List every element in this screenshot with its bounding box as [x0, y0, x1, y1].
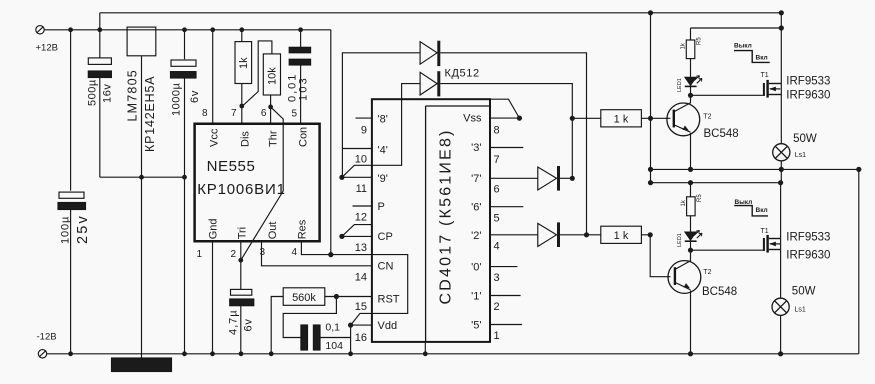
wire R7 to LED ch2: [690, 216, 692, 232]
resistor R3 560k: [283, 288, 325, 306]
wire gate ch1: [691, 94, 763, 96]
svg-text:4: 4: [291, 247, 297, 258]
svg-text:14: 14: [355, 272, 367, 284]
lamp Ls2 ch2: [772, 298, 789, 315]
wire Vdd node column: [350, 325, 352, 354]
node gate ch1: [688, 93, 693, 98]
node gnd link: [139, 175, 144, 180]
svg-text:T1: T1: [761, 72, 769, 79]
node rail 555 Vcc: [210, 27, 215, 32]
svg-text:LM7805: LM7805: [126, 69, 140, 121]
svg-text:IRF9630: IRF9630: [786, 90, 830, 102]
svg-text:Ls1: Ls1: [795, 152, 806, 159]
wire R5 to LED ch1: [690, 59, 692, 78]
wire top bus riser: [99, 13, 101, 30]
node rail 560k: [269, 351, 274, 356]
wire 1k ch1 to base: [641, 117, 670, 119]
node diode ch1 top: [570, 116, 575, 121]
svg-text:LED1: LED1: [677, 233, 683, 247]
mosfet T3 ch2 arrow: [770, 243, 780, 245]
wire pin12 stub: [353, 205, 372, 207]
svg-text:4: 4: [494, 241, 500, 253]
LED ch1 arrows: [694, 76, 702, 84]
svg-text:'5': '5': [471, 320, 481, 332]
wire pin9 stub: [356, 117, 372, 119]
svg-text:100µ: 100µ: [60, 216, 72, 244]
svg-text:Выкл: Выкл: [735, 199, 753, 206]
transistor Q1 base bar: [673, 110, 675, 128]
resistor R4 1k ch1: [601, 110, 642, 127]
svg-text:LED1: LED1: [677, 78, 683, 92]
wire diode2 cathode to ch1 feed: [440, 84, 572, 179]
node emitter ch1: [688, 167, 693, 172]
mosfet T3 ch2 channel bar: [766, 235, 768, 253]
diode VD2 KD512 bottom: [420, 72, 437, 95]
svg-text:103: 103: [298, 76, 310, 101]
node Vss: [517, 116, 522, 121]
terminal X2 -12V: [38, 350, 46, 358]
node feed ch2 right: [778, 180, 783, 185]
svg-text:CD4017 (К561ИЕ8): CD4017 (К561ИЕ8): [438, 128, 455, 304]
transistor Q2 emitter arrow: [684, 283, 690, 288]
capacitor C5 4.7u 6v: [231, 289, 252, 295]
svg-text:6: 6: [494, 184, 500, 196]
svg-text:IRF9630: IRF9630: [786, 250, 830, 262]
wire pin5 stub: [490, 206, 524, 208]
node rail C4: [298, 27, 303, 32]
svg-text:'7': '7': [471, 173, 481, 185]
wire diode3 out: [560, 177, 573, 179]
svg-text:3: 3: [494, 272, 500, 284]
svg-text:16: 16: [355, 332, 367, 344]
resistor R7 ch2 led resistor: [687, 197, 696, 216]
svg-text:'1': '1': [471, 291, 481, 303]
svg-text:2: 2: [230, 249, 236, 260]
svg-text:T2: T2: [703, 269, 711, 276]
node R5 top: [779, 25, 784, 30]
svg-text:560k: 560k: [292, 292, 316, 304]
svg-text:КД512: КД512: [445, 68, 480, 80]
svg-text:BC548: BC548: [702, 286, 737, 298]
wire 100u column bottom: [70, 208, 72, 354]
wire 500u top lead: [99, 30, 101, 58]
wire bottom rail: [47, 353, 859, 355]
wire 555 pin1 Gnd down: [212, 241, 214, 353]
resistor R2 10k: [263, 54, 280, 95]
svg-text:Out: Out: [267, 222, 279, 240]
wire top bus: [100, 12, 782, 14]
wire 560k left lead to rail: [271, 297, 283, 354]
svg-text:КР1006ВИ1: КР1006ВИ1: [197, 181, 285, 198]
wire emitter ch2 down to rail: [690, 291, 692, 354]
op timer U1 NE555 box: [195, 124, 320, 242]
svg-text:Con: Con: [298, 127, 310, 147]
svg-text:50W: 50W: [792, 286, 816, 298]
svg-text:25v: 25v: [75, 214, 91, 244]
node rail box stub: [423, 351, 428, 356]
wire 1k bottom lead to pin7: [241, 84, 243, 124]
svg-text:Ls1: Ls1: [795, 307, 806, 314]
svg-text:Vcc: Vcc: [209, 128, 221, 147]
counter U3 CD4017 outer box: [372, 99, 490, 342]
node pin13: [339, 234, 344, 239]
svg-text:Выкл: Выкл: [734, 42, 752, 49]
transistor Q2 base bar: [674, 267, 676, 285]
node base ch2: [648, 232, 653, 237]
wire 100u column top: [70, 30, 72, 191]
svg-text:13: 13: [355, 242, 367, 254]
capacitor C4 0.01: [289, 47, 310, 53]
wire pin8 Vss stub: [490, 117, 520, 119]
svg-text:1000µ: 1000µ: [171, 83, 183, 116]
node feed ch2 left: [648, 180, 653, 185]
node rail C3: [68, 27, 73, 32]
svg-text:6v: 6v: [189, 90, 201, 103]
LED ch2 arrows: [694, 230, 702, 238]
wire pin13 stub and jog: [342, 225, 372, 237]
svg-text:Gnd: Gnd: [208, 219, 220, 240]
svg-text:Res: Res: [297, 219, 309, 239]
svg-text:7: 7: [494, 154, 500, 166]
wire ch1 emitter rail: [651, 168, 859, 170]
wire ch1 diode node to 1k: [572, 117, 601, 119]
wire LED ch1 to collector: [690, 86, 692, 103]
svg-text:Vdd: Vdd: [378, 320, 398, 332]
svg-text:'6': '6': [471, 202, 481, 214]
LED VD5 ch1: [685, 77, 696, 85]
svg-text:12: 12: [355, 212, 367, 224]
transistor Q1 collector: [674, 103, 690, 112]
wire Vss feeder from box top: [491, 99, 520, 118]
resistor R1 1k: [235, 42, 252, 84]
node emitter rail ch1: [648, 167, 653, 172]
transistor Q2 emitter: [676, 283, 691, 290]
mosfet T1 ch1 arrow: [770, 88, 780, 90]
mosfet T1 ch1 source stub: [769, 94, 782, 96]
wire 7805 middle pin down: [141, 56, 143, 358]
diode VD1 KD512 top: [420, 42, 437, 64]
svg-text:T2: T2: [703, 114, 711, 121]
svg-text:CP: CP: [378, 231, 393, 243]
node base ch1: [648, 116, 653, 121]
node lamp ch1: [779, 167, 784, 172]
svg-text:8: 8: [494, 125, 500, 137]
svg-text:Вкл: Вкл: [756, 207, 768, 214]
svg-text:4,7µ: 4,7µ: [228, 309, 240, 335]
wire 0.01 top lead: [300, 30, 302, 48]
node rail C5 bottom: [239, 351, 244, 356]
capacitor C3 100u 25v: [59, 192, 84, 198]
wire lamp ch2 bottom to rail: [780, 315, 782, 353]
svg-text:RST: RST: [378, 294, 400, 306]
svg-text:КР142ЕН5А: КР142ЕН5А: [143, 76, 157, 152]
node rail Vdd col: [348, 351, 353, 356]
lamp Ls1 ch1: [773, 144, 790, 161]
wire 555 pin2 Tri down: [240, 241, 242, 289]
transistor Q1 BC548 ch1 circle: [667, 103, 700, 136]
node rail C2 bottom: [182, 351, 187, 356]
wire pin11 stub: [342, 176, 372, 178]
wire 0,1 right plate to Vdd node: [320, 337, 351, 339]
svg-text:+12В: +12В: [36, 43, 58, 54]
node plus12 CP: [328, 252, 333, 257]
svg-text:IRF9533: IRF9533: [786, 76, 830, 88]
wire LED ch2 to collector: [690, 241, 692, 261]
transistor Q1 emitter: [674, 125, 690, 132]
node rail 555 gnd: [210, 351, 215, 356]
svg-text:BC548: BC548: [704, 128, 739, 140]
wire pin10 stub: [342, 148, 372, 150]
mosfet T3 ch2 gate bar: [763, 238, 765, 251]
wire 10k bottom lead to pin6: [270, 95, 272, 124]
svg-text:5: 5: [291, 109, 297, 120]
svg-text:-12В: -12В: [37, 332, 57, 343]
wire 555 pin8 Vcc column: [212, 30, 214, 124]
node bus ch1: [648, 10, 653, 15]
wire pin16 Vdd stub: [351, 324, 372, 326]
wire pin4 row to output diode2: [490, 234, 538, 236]
resistor R6 1k ch2: [601, 226, 642, 243]
svg-text:1k: 1k: [238, 57, 250, 69]
node pin2 C5: [238, 258, 243, 263]
svg-text:104: 104: [325, 340, 343, 352]
svg-text:IRF9533: IRF9533: [786, 232, 830, 244]
wire ch2 mosfet column: [780, 183, 782, 299]
capacitor C6 0,1 104: [301, 325, 308, 350]
resistor R5 ch1 led resistor: [686, 40, 695, 59]
wire emitter ch1 down: [690, 133, 692, 170]
svg-text:1k: 1k: [681, 42, 687, 49]
svg-text:CN: CN: [378, 261, 394, 273]
svg-text:10: 10: [355, 154, 367, 166]
svg-text:Thr: Thr: [268, 130, 280, 147]
wire 500u bottom lead: [99, 78, 101, 178]
counter U3 inner divider: [426, 106, 490, 342]
transistor Q1 emitter arrow: [683, 125, 689, 130]
svg-text:R5: R5: [697, 194, 703, 202]
node pin15 reset: [334, 294, 339, 299]
wire diode4 out to ch2 resistor: [560, 234, 601, 236]
svg-text:1: 1: [196, 249, 202, 260]
wire lamp ch1 bottom: [780, 161, 782, 183]
svg-text:Vss: Vss: [463, 113, 482, 125]
svg-text:'4': '4': [378, 145, 388, 157]
svg-text:'8': '8': [378, 114, 388, 126]
wire ch2 feed rail: [651, 182, 781, 184]
svg-text:11: 11: [356, 183, 367, 195]
node rail emitter ch2: [688, 351, 693, 356]
wire +12 drop x650: [650, 13, 652, 183]
node rail C2: [182, 27, 187, 32]
svg-text:Tri: Tri: [237, 227, 249, 239]
diode VD4 output ch2: [538, 223, 557, 246]
mosfet T1 ch1 channel bar: [766, 80, 768, 98]
svg-text:'9': '9': [378, 173, 388, 185]
wire 10k top bracket to pin7 node: [243, 41, 272, 106]
wire gate ch2: [691, 249, 763, 251]
svg-text:'3': '3': [471, 142, 481, 154]
wire 1000u bottom lead: [184, 78, 186, 354]
transistor Q2 BC548 ch2 circle: [668, 261, 701, 294]
svg-text:6v: 6v: [243, 318, 255, 331]
wire 1k ch2 to base: [641, 235, 670, 277]
capacitor C2 1000u 6v: [171, 60, 196, 66]
wire right return riser: [858, 169, 860, 353]
node bus ch1 right: [779, 10, 784, 15]
svg-text:16v: 16v: [102, 83, 114, 103]
terminal X1 +12V: [36, 26, 44, 34]
svg-text:2: 2: [494, 301, 500, 313]
wire Thr-Tri link diagonal: [241, 107, 283, 260]
node rail R1: [239, 27, 244, 32]
mosfet T3 ch2 drain stub: [769, 238, 781, 240]
svg-text:1 k: 1 k: [614, 230, 629, 242]
capacitor C1 500u 16v: [88, 58, 111, 65]
regulator U2 LM7805 box: [127, 27, 156, 56]
node diode ch2 out: [584, 232, 589, 237]
svg-text:'0': '0': [471, 262, 481, 274]
svg-text:1k: 1k: [681, 199, 687, 206]
svg-text:P: P: [378, 201, 385, 213]
wire pin10 feed from diode pair: [342, 53, 420, 178]
wire 1k top lead: [241, 30, 243, 42]
wire +12 right column ch1: [780, 13, 782, 144]
svg-text:9: 9: [361, 125, 367, 137]
node gate ch2: [688, 248, 693, 253]
svg-text:7: 7: [231, 108, 237, 119]
wire pin2 stub: [490, 295, 521, 297]
node diode ch1 out: [570, 176, 575, 181]
wire pin7 stub: [490, 147, 524, 149]
svg-text:10k: 10k: [267, 67, 279, 85]
svg-text:15: 15: [355, 301, 367, 313]
wire diode1 cathode to ch2 feed: [440, 53, 586, 235]
svg-text:Вкл: Вкл: [756, 55, 768, 62]
node pin7 R1 R2: [239, 104, 244, 109]
node gnd link c2: [182, 175, 187, 180]
svg-text:Dis: Dis: [240, 131, 252, 147]
svg-text:50W: 50W: [793, 133, 817, 145]
svg-text:1: 1: [494, 330, 500, 342]
svg-text:1 k: 1 k: [614, 114, 629, 126]
node rail C3 bottom: [68, 351, 73, 356]
LED VD6 ch2: [685, 232, 696, 240]
wire 4.7u bottom lead: [240, 306, 242, 354]
wire ground link y155: [100, 176, 185, 178]
wire diode2 anode from pin11: [342, 84, 420, 178]
wire +12 rail corner down to CD4017 area: [330, 30, 332, 255]
wire R5 top to +12: [691, 28, 782, 40]
wire ground stub under box: [424, 342, 426, 354]
svg-text:6: 6: [261, 108, 267, 119]
svg-text:5: 5: [494, 213, 500, 225]
node rail bus: [97, 27, 102, 32]
wire 560k right lead to pin15: [325, 296, 372, 298]
wire R7 top: [690, 183, 692, 197]
wire 0.01 bottom lead to pin5: [300, 65, 302, 124]
node pin16 Vdd: [348, 323, 353, 328]
node feed ch2 R7: [688, 180, 693, 185]
svg-text:500µ: 500µ: [87, 79, 99, 106]
svg-text:R5: R5: [697, 37, 703, 45]
wire pin3 stub: [490, 266, 518, 268]
mosfet T3 ch2 source stub: [769, 249, 781, 251]
wire +12 rail: [44, 29, 331, 31]
svg-text:NE555: NE555: [207, 158, 256, 175]
svg-text:'2': '2': [471, 230, 481, 242]
node rail right end: [856, 167, 861, 172]
svg-text:8: 8: [202, 108, 208, 119]
svg-text:3: 3: [259, 247, 265, 258]
wire 555 pin4 Res to +12 net: [301, 241, 407, 325]
diode VD3 output ch1: [538, 167, 557, 190]
node rail lamp ch2: [778, 351, 783, 356]
wire pin1 stub: [490, 324, 523, 326]
transistor Q2 collector: [676, 261, 691, 270]
svg-text:T1: T1: [761, 228, 769, 235]
wire 1000u top lead: [184, 30, 186, 59]
wire reset capacitor loop: [283, 297, 336, 338]
wire pin6 row to output diode1: [490, 177, 538, 179]
node pin6 R2: [268, 105, 273, 110]
wire 555 pin3 Out to CN: [262, 241, 372, 265]
mosfet T1 ch1 gate bar: [763, 83, 765, 96]
node pin11: [339, 175, 344, 180]
mosfet T1 ch1 drain stub: [769, 83, 782, 85]
svg-text:0,1: 0,1: [325, 322, 340, 334]
ground plate: [112, 358, 172, 372]
